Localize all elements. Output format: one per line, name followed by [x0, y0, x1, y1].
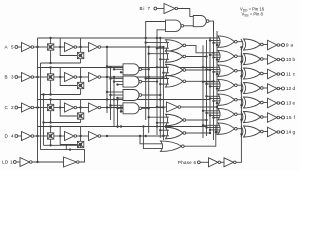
junction [120, 110, 122, 112]
junction [49, 62, 51, 64]
wire TG2 control [80, 119, 82, 122]
svg-text:12 d: 12 d [286, 86, 295, 91]
wire [237, 128, 242, 130]
junction [42, 121, 44, 123]
junction [156, 66, 158, 68]
wire T2 output [209, 21, 213, 31]
LD inverter 1 [20, 158, 30, 167]
junction [162, 76, 164, 78]
svg-text:LD 1: LD 1 [2, 160, 13, 165]
junction [106, 106, 108, 108]
wire NOR input [214, 100, 220, 102]
junction [240, 90, 242, 92]
junction [106, 91, 108, 93]
feedback transmission gate TG2-D [77, 141, 83, 147]
junction [212, 42, 214, 44]
wire net C-top [38, 99, 211, 101]
XNOR gate D [241, 83, 243, 94]
svg-text:Phase 6: Phase 6 [178, 160, 197, 165]
junction [106, 76, 108, 78]
junction [49, 98, 51, 100]
wire [18, 76, 22, 78]
junction [120, 106, 122, 108]
wire [237, 55, 242, 57]
wire NOR input [146, 78, 169, 80]
junction [209, 85, 211, 87]
input terminal B [15, 76, 18, 79]
junction [79, 76, 81, 78]
junction [106, 46, 108, 48]
junction [36, 135, 38, 137]
wire net B-top [38, 67, 214, 69]
junction [79, 135, 81, 137]
wire [18, 135, 22, 137]
wire TG1 control lower [50, 139, 52, 145]
wire vertical bus [117, 100, 119, 129]
feedback transmission gate TG2-A [77, 52, 83, 58]
wire [263, 116, 267, 118]
junction [49, 66, 51, 68]
junction [159, 129, 161, 131]
wire [237, 70, 242, 72]
wire NOR input [163, 135, 169, 137]
wire NAND input [111, 104, 124, 106]
wire NOR input [207, 112, 220, 114]
wire feedback loop [60, 68, 77, 86]
wire TG2 control [80, 59, 82, 63]
wire vertical bus [145, 38, 147, 120]
wire NOR input [214, 56, 220, 58]
wire [77, 135, 89, 137]
junction [109, 77, 111, 79]
wire NOR input [207, 95, 220, 97]
junction [148, 68, 150, 70]
NOR gate M1 [166, 40, 184, 52]
svg-text:11 c: 11 c [286, 72, 296, 77]
wire NOR input [157, 66, 169, 68]
junction [209, 97, 211, 99]
latch inverter A1 [65, 43, 75, 52]
wire [54, 76, 65, 78]
junction [205, 126, 207, 128]
wire TG2 control [80, 89, 82, 95]
XNOR gate C [241, 68, 243, 79]
wire B latch clock line [41, 94, 81, 96]
junction [215, 131, 217, 133]
wire LD rail 3 [43, 95, 45, 146]
latch inverter A2 [89, 43, 99, 52]
wire [101, 76, 107, 78]
output NOR gate D [218, 79, 235, 91]
transmission gate TG1-A [47, 44, 53, 50]
junction [109, 106, 111, 108]
wire phase tap [241, 90, 242, 92]
junction [113, 68, 115, 70]
junction [202, 81, 204, 83]
junction [212, 56, 214, 58]
junction [240, 133, 242, 135]
wire NOR input [149, 116, 169, 118]
junction [116, 98, 118, 100]
junction [36, 46, 38, 48]
wire vertical bus [206, 40, 208, 136]
junction [162, 135, 164, 137]
junction [145, 135, 147, 137]
junction [36, 46, 38, 48]
NAND gate N3 [123, 90, 139, 101]
wire NOR input [210, 40, 220, 42]
wire vertical bus [213, 21, 215, 140]
junction [106, 46, 108, 48]
junction [209, 69, 211, 71]
junction [120, 125, 122, 127]
junction [216, 87, 218, 89]
latch inverter B2 [89, 73, 99, 82]
wire NOR input [157, 47, 169, 49]
svg-text:13 e: 13 e [286, 101, 295, 106]
NOR gate B1 [161, 141, 182, 152]
wire A latch clock line [41, 62, 81, 64]
wire net QB [108, 76, 163, 78]
wire NOR input [203, 124, 220, 126]
wire NOR output [186, 119, 207, 121]
junction [49, 93, 51, 95]
wire NOR output stair [186, 45, 220, 52]
wire NOR input [214, 42, 220, 44]
junction [216, 58, 218, 60]
wire vertical bus [159, 38, 161, 138]
middle inverter [167, 102, 179, 112]
svg-text:C 2: C 2 [5, 105, 14, 110]
junction [156, 106, 158, 108]
wire NAND output [142, 68, 149, 70]
wire NOR B1 input 1 [140, 136, 163, 144]
wire NOR input [210, 85, 220, 87]
junction [156, 125, 158, 127]
XNOR gate E [241, 97, 243, 108]
wire NOR input [203, 66, 220, 68]
wire [32, 161, 63, 163]
junction [69, 148, 71, 150]
wire TG1 control [50, 38, 52, 44]
wire [280, 102, 282, 104]
wire NOR input [203, 110, 220, 112]
wire [280, 117, 282, 119]
junction [36, 106, 38, 108]
output driver inverter D [268, 84, 278, 94]
wire NOR input [146, 42, 169, 44]
wire [54, 107, 65, 109]
svg-text:A 5: A 5 [5, 45, 14, 50]
wire NOR input [210, 98, 220, 100]
junction [209, 54, 211, 56]
wire [263, 102, 267, 104]
NAND gate N1 [123, 64, 139, 75]
wire [237, 41, 242, 43]
junction [148, 76, 150, 78]
junction [162, 46, 164, 48]
wire [77, 107, 89, 109]
junction [156, 47, 158, 49]
wire NAND input [107, 91, 123, 93]
wire NOR input [207, 83, 220, 85]
XNOR gate B [241, 54, 243, 65]
input terminal A [15, 46, 18, 49]
wire NOR input [157, 122, 169, 124]
output terminal b pin 10 [282, 58, 285, 61]
input terminal Phase [197, 161, 200, 164]
wire vertical bus [162, 47, 164, 140]
wire [101, 46, 107, 48]
wire TG1 control [50, 100, 52, 105]
wire NAND input [114, 81, 123, 83]
wire vertical bus [148, 47, 150, 133]
wire LD rail 2 [40, 63, 42, 150]
junction [205, 68, 207, 70]
XNOR gate F [241, 112, 243, 123]
junction [59, 46, 61, 48]
wire feedback loop [60, 127, 77, 145]
wire vertical bus [216, 31, 218, 135]
junction [120, 71, 122, 73]
junction [202, 66, 204, 68]
wire [77, 76, 89, 78]
junction [209, 39, 211, 41]
wire T1 to T2 [184, 25, 194, 27]
svg-text:9 a: 9 a [286, 43, 293, 48]
junction [205, 83, 207, 85]
input inverter C [22, 103, 32, 112]
wire NAND output [142, 94, 161, 96]
wire [18, 46, 22, 48]
input terminal C [15, 106, 18, 109]
junction [205, 119, 207, 121]
junction [240, 75, 242, 77]
junction [159, 83, 161, 85]
junction [113, 98, 115, 100]
output terminal a pin 9 [282, 44, 285, 47]
wire NAND input [118, 84, 124, 86]
junction [156, 122, 158, 124]
wire NOR output [186, 69, 210, 71]
wire [16, 161, 20, 163]
svg-text:B 3: B 3 [5, 75, 14, 80]
wire [280, 59, 282, 61]
phase inverter 1 [209, 158, 219, 167]
wire [280, 131, 282, 133]
wire TG1 control [50, 127, 52, 133]
latch inverter C2 [89, 103, 99, 112]
NAND gate T1 [166, 20, 182, 32]
junction [159, 46, 161, 48]
junction [116, 107, 118, 109]
junction [240, 61, 242, 63]
wire NOR input [160, 83, 169, 85]
junction [216, 44, 218, 46]
junction [116, 125, 118, 127]
wire net QC [108, 107, 163, 109]
junction [142, 125, 144, 127]
junction [145, 77, 147, 79]
wire [101, 135, 107, 137]
LD inverter 2 [64, 157, 77, 167]
transmission gate TG1-C [47, 104, 53, 110]
NAND gate N4 [123, 103, 139, 114]
junction [148, 53, 150, 55]
wire phase tap [241, 133, 242, 135]
wire NOR input [163, 72, 169, 74]
svg-text:Bi 7: Bi 7 [140, 6, 151, 11]
wire [157, 8, 164, 10]
junction [109, 66, 111, 68]
junction [59, 106, 61, 108]
feedback transmission gate TG2-B [77, 82, 83, 88]
wire TG1 control lower [50, 80, 52, 94]
wire NOR input [217, 73, 220, 75]
wire [101, 107, 107, 109]
wire [263, 73, 267, 75]
junction [216, 106, 218, 108]
wire NOR input [210, 54, 220, 56]
wire vertical bus [156, 38, 158, 135]
NOR gate M3 [166, 64, 184, 76]
output terminal f pin 15 [282, 116, 285, 119]
wire vertical bus [202, 45, 204, 138]
junction [148, 46, 150, 48]
wire [263, 131, 267, 133]
wire LD return [41, 150, 85, 162]
wire phase line [236, 47, 241, 162]
wire NOR input [207, 69, 220, 71]
output terminal c pin 11 [282, 73, 285, 76]
junction [212, 100, 214, 102]
transmission gate TG1-B [47, 74, 53, 80]
wire [200, 161, 208, 163]
wire vertical bus [106, 47, 108, 113]
output terminal d pin 12 [282, 87, 285, 90]
wire [54, 46, 65, 48]
junction [139, 135, 141, 137]
wire NOR B1 input 2 [143, 127, 163, 149]
junction [209, 114, 211, 116]
wire inverter output [181, 106, 217, 108]
XNOR gate G [241, 126, 243, 137]
output driver inverter F [268, 113, 278, 123]
junction [109, 104, 111, 106]
junction [36, 161, 38, 163]
junction [145, 41, 147, 43]
wire [34, 76, 48, 78]
junction [159, 58, 161, 60]
NOR gate M4 [166, 76, 184, 88]
wire NAND input [111, 94, 124, 96]
wire NAND input [107, 65, 123, 67]
input terminal LD [13, 161, 16, 164]
junction [212, 71, 214, 73]
junction [36, 106, 38, 108]
wire NAND T1 input 1 [146, 22, 166, 39]
wire NAND input [121, 71, 123, 73]
wire NOR input [217, 59, 220, 61]
junction [240, 104, 242, 106]
junction [202, 110, 204, 112]
wire NOR input [203, 81, 220, 83]
wire feedback loop [60, 100, 77, 117]
phase inverter 2 [224, 158, 234, 167]
wire [263, 58, 267, 60]
wire feedback loop [60, 38, 77, 56]
wire [77, 46, 89, 48]
NOR gate M5 [166, 114, 184, 126]
junction [216, 102, 218, 104]
svg-text:14 g: 14 g [286, 130, 295, 135]
junction [106, 135, 108, 137]
wire [34, 107, 48, 109]
latch inverter D1 [65, 132, 75, 141]
junction [205, 55, 207, 57]
junction [209, 129, 211, 131]
input inverter A [22, 43, 32, 52]
output driver inverter E [268, 98, 278, 108]
wire NOR input [217, 88, 220, 90]
output driver inverter C [268, 69, 278, 79]
wire NOR output [186, 132, 210, 134]
wire NAND input [118, 107, 124, 109]
junction [159, 37, 161, 39]
junction [209, 132, 211, 134]
wire vertical bus [110, 68, 112, 121]
wire NOR input [217, 102, 220, 104]
wire [54, 135, 65, 137]
svg-text:10 b: 10 b [286, 57, 295, 62]
junction [156, 37, 158, 39]
latch inverter B1 [65, 73, 75, 82]
wire TG1 control [50, 68, 52, 74]
junction [59, 76, 61, 78]
output driver inverter B [268, 55, 278, 65]
junction [202, 124, 204, 126]
junction [159, 94, 161, 96]
wire vertical bus [120, 108, 122, 114]
junction [113, 80, 115, 82]
junction [205, 112, 207, 114]
junction [212, 116, 214, 118]
junction [36, 76, 38, 78]
wire net D-top [38, 126, 208, 128]
wire vertical bus [113, 77, 115, 127]
wire NAND T1 input 2 [157, 30, 166, 38]
latch inverter C1 [65, 103, 75, 112]
wire [221, 161, 224, 163]
wire NAND output [142, 81, 157, 83]
wire phase tap [241, 61, 242, 63]
wire NOR input [214, 71, 220, 73]
wire NAND input [111, 78, 124, 80]
junction [49, 121, 51, 123]
wire inverter input [157, 106, 167, 108]
wire [263, 44, 267, 46]
wire TG1 control lower [50, 111, 52, 123]
input inverter B [22, 73, 32, 82]
junction [145, 37, 147, 39]
junction [162, 72, 164, 74]
output NOR gate F [218, 108, 235, 120]
wire C latch clock line [44, 122, 81, 124]
latch inverter D2 [89, 132, 99, 141]
wire NAND input [118, 97, 124, 99]
wire NOR input [210, 114, 220, 116]
junction [79, 46, 81, 48]
